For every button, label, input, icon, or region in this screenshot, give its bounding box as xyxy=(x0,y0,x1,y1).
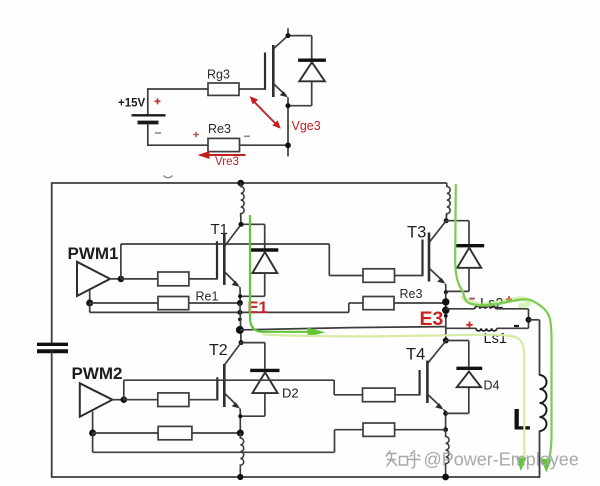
inductor L load xyxy=(540,375,547,431)
wire corner to T4 emitter resistor xyxy=(335,429,364,431)
resistor T2 gate xyxy=(158,393,189,407)
transistor T1 emitter lead xyxy=(225,272,238,285)
wire Ls1 branch right xyxy=(497,327,529,329)
svg-text:T4: T4 xyxy=(406,345,425,363)
resistor T3 gate xyxy=(363,269,395,283)
green path B from T3 down through Ls2 to load xyxy=(455,184,551,465)
wire right rail lower xyxy=(539,431,541,478)
wire Re1 to E1 xyxy=(189,302,240,304)
svg-text:Re1: Re1 xyxy=(196,289,219,303)
node PWM2 output xyxy=(121,396,128,403)
wire T2 gate resistor to gate xyxy=(189,399,218,401)
wire T2 emitter column xyxy=(239,409,241,434)
wire return bus to Re3 branch xyxy=(90,311,349,313)
node PWM2 return xyxy=(89,430,96,437)
diode D1 cathode lead xyxy=(264,224,266,248)
wire to T4 gate resistor xyxy=(334,394,362,396)
wire Re3 main to E3 xyxy=(394,302,446,304)
wire corner to Re3 main xyxy=(349,302,363,304)
wire T2 collector to D2 xyxy=(241,342,265,344)
wire D2 anode to emitter xyxy=(240,415,265,417)
transistor T1 collector lead xyxy=(225,225,241,247)
svg-text:PWM1: PWM1 xyxy=(68,244,119,263)
capacitor C1 xyxy=(37,344,68,351)
node T4 emitter resistor junction xyxy=(443,427,448,432)
inductor parasitic below T4 xyxy=(446,430,449,477)
transistor Q3 collector stub xyxy=(287,28,289,36)
wire Ls2 corner down xyxy=(528,309,530,321)
wire T3 emitter column xyxy=(445,284,447,293)
diode D-top cathode bar xyxy=(298,59,326,62)
wire top gate-drive loop bottom xyxy=(147,144,208,146)
green arrowhead C bottom xyxy=(516,458,526,472)
diode D4 cathode lead xyxy=(468,341,470,367)
inductor parasitic below T2 xyxy=(240,433,243,477)
transistor T4 emitter arrowhead xyxy=(435,403,443,409)
node T4 leg bottom rail xyxy=(442,474,449,481)
diode D3 triangle xyxy=(457,248,481,268)
plus mark red left of Re3 xyxy=(193,132,199,138)
node PWM1 output xyxy=(118,276,125,283)
node Ls junction xyxy=(526,317,532,323)
wire T4 gate resistor to gate xyxy=(395,394,421,396)
wire gate bus corner down xyxy=(328,244,330,276)
wire E1 to E3 load bus xyxy=(240,327,446,330)
transistor T4 gate bar xyxy=(419,370,421,396)
svg-text:D4: D4 xyxy=(484,378,500,392)
svg-text:+15V: +15V xyxy=(118,98,146,110)
node T4 collector xyxy=(443,338,449,344)
wire gate bus PWM2 to T4 branch xyxy=(124,379,334,381)
annotation Vge3 double arrow xyxy=(253,100,278,126)
transistor T4 emitter lead xyxy=(428,395,442,408)
resistor Re1 xyxy=(158,297,189,310)
wire T1 collector to D1 xyxy=(241,223,265,225)
wire collector to diode top xyxy=(287,35,312,37)
transistor T2 collector lead xyxy=(225,343,241,365)
node T4 emitter D4 junction xyxy=(443,411,448,416)
diode D-top cathode lead xyxy=(311,36,313,59)
wire PWM1 return drop xyxy=(89,291,91,304)
wire to T3 gate resistor xyxy=(329,275,363,277)
transistor T2 emitter arrowhead xyxy=(232,402,240,408)
wire PWM2 return to T2 emitter resistor xyxy=(93,432,159,434)
wire top gate-drive loop top xyxy=(148,88,208,90)
wire D3 anode to emitter xyxy=(446,290,469,292)
green arrowhead A xyxy=(308,328,326,337)
wire Q3 emitter stub below xyxy=(287,145,289,156)
svg-text:Vge3: Vge3 xyxy=(292,119,321,133)
wire Ls2 branch left xyxy=(446,308,475,310)
inductor Ls2 xyxy=(475,306,496,309)
wire PWM1 output xyxy=(110,278,122,280)
wire Ls1 branch left xyxy=(446,327,476,329)
plus mark right of Ls2 xyxy=(506,296,512,302)
transistor T3 emitter arrowhead xyxy=(437,278,445,284)
node E3 small xyxy=(444,314,448,318)
transistor T3 body bar xyxy=(428,233,431,282)
transistor T4 body bar xyxy=(426,361,429,404)
wire T4 gate bus corner down xyxy=(333,380,335,395)
svg-text:Re3: Re3 xyxy=(208,122,231,136)
node PWM1 return xyxy=(86,300,93,307)
plus mark red near battery top xyxy=(155,98,161,104)
transistor Q3 gate bar xyxy=(264,53,266,90)
wire D4 anode to emitter xyxy=(446,412,469,414)
wire Ls1 corner up xyxy=(528,320,530,329)
node return bus E1 crossing xyxy=(237,310,242,315)
transistor T3 emitter lead xyxy=(430,269,444,282)
inductor parasitic above T3 xyxy=(446,183,450,217)
wire E1 column xyxy=(240,303,241,343)
wire PWM2 up to gate bus xyxy=(123,380,125,400)
wire DC bus left rail lower xyxy=(51,352,53,478)
svg-text:@Power-Employee: @Power-Employee xyxy=(424,450,579,470)
wire D4 top to T4 collector xyxy=(446,340,469,342)
node T3 collector xyxy=(444,218,449,223)
wire T4 emitter branch corner up xyxy=(334,430,336,453)
diode D2 triangle xyxy=(252,372,277,393)
minus mark right of Ls1 xyxy=(514,325,519,327)
node E1 Re1 junction xyxy=(237,300,243,306)
minus mark grey right of Re3 xyxy=(244,135,250,137)
node T2 collector xyxy=(239,340,244,345)
wire T1 gate resistor to gate xyxy=(189,278,218,280)
green path glow blob near Ls2 xyxy=(462,296,529,305)
diode D4 triangle xyxy=(457,372,481,388)
svg-text:E3: E3 xyxy=(420,308,444,330)
resistor Rg3 xyxy=(208,83,239,95)
svg-text:Rg3: Rg3 xyxy=(207,68,230,82)
wire PWM2 return drop xyxy=(92,412,94,434)
wire Re3 to emitter node xyxy=(240,144,289,146)
wire return bus to T4 emitter branch xyxy=(93,451,335,453)
wire Q3 emitter column xyxy=(287,97,289,145)
wire gate bus PWM1 to T3 branch xyxy=(121,243,329,245)
wire DC bus bottom rail xyxy=(52,476,540,478)
battery V1 +15V xyxy=(132,115,166,122)
node E1 main xyxy=(236,326,244,334)
svg-text:Re3: Re3 xyxy=(400,287,423,301)
green path A vertical and arrow xyxy=(250,215,309,332)
node D3 emitter junction xyxy=(444,290,448,294)
wire Re3 branch corner up xyxy=(348,303,350,312)
node E3 lower blob xyxy=(442,307,449,314)
watermark zhihu glyphs xyxy=(386,451,421,469)
node E1 small xyxy=(238,318,242,322)
green arrowhead B bottom xyxy=(541,459,552,473)
resistor T2 emitter xyxy=(158,426,192,439)
svg-text:T3: T3 xyxy=(407,223,426,241)
diode D1 anode lead xyxy=(264,273,266,296)
buffer PWM1 triangle xyxy=(77,262,110,296)
wire diode anode to emitter xyxy=(288,105,312,107)
buffer PWM2 triangle xyxy=(80,383,113,416)
wire PWM2 output xyxy=(112,399,125,401)
diode D3 cathode lead xyxy=(468,221,470,245)
diode D-top anode lead xyxy=(311,81,313,105)
wire PWM2 return lower drop xyxy=(92,433,94,452)
wire T1 collector column xyxy=(240,214,242,225)
diode D-top triangle xyxy=(299,62,325,81)
transistor T2 gate bar xyxy=(216,377,218,400)
svg-text:T2: T2 xyxy=(209,342,228,359)
transistor T2 body bar xyxy=(223,364,226,407)
wire PWM1 return lower drop xyxy=(89,303,91,312)
transistor T3 collector lead xyxy=(430,221,447,242)
node Q3 emitter-return junction xyxy=(285,142,291,148)
green path pale continuation to right xyxy=(263,335,524,461)
svg-text:Vre3: Vre3 xyxy=(215,156,239,168)
wire PWM1 up to gate bus xyxy=(120,244,122,279)
wire right rail upper xyxy=(539,320,541,376)
transistor T3 gate bar xyxy=(421,240,423,277)
wire D1 anode to emitter xyxy=(240,295,265,297)
wire battery plus lead xyxy=(147,88,149,114)
transistor Q3 collector lead xyxy=(274,36,288,49)
wire Ls node to right rail xyxy=(529,319,540,321)
diode D3 cathode bar xyxy=(456,244,485,247)
wire battery minus lead xyxy=(147,124,149,145)
wire PWM1 return to Re1 xyxy=(90,302,158,304)
wire Rg3 to gate xyxy=(239,88,266,90)
wire T4 emitter resistor to emitter xyxy=(395,429,446,431)
wire T1 emitter column xyxy=(239,287,241,303)
diode D3 anode lead xyxy=(468,268,470,292)
annotation Vre3 arrow xyxy=(205,154,246,156)
inductor parasitic above T1 xyxy=(241,183,244,217)
node T2 emitter xyxy=(237,430,244,437)
wire PWM2 to T2 gate resistor xyxy=(124,399,158,401)
diode D4 cathode bar xyxy=(456,367,482,370)
resistor Re3 main xyxy=(363,297,394,310)
transistor T1 gate bar xyxy=(216,241,218,279)
resistor Re3 top circuit xyxy=(208,138,240,151)
node T1 collector xyxy=(239,222,244,227)
diode D2 cathode bar xyxy=(250,369,279,372)
diode D4 anode lead xyxy=(468,387,470,413)
transistor Q3 emitter lead xyxy=(274,84,286,96)
svg-text:L: L xyxy=(513,404,531,437)
transistor T4 collector lead xyxy=(428,341,446,363)
transistor Q3 body bar xyxy=(272,45,275,97)
minus mark left of Ls2 xyxy=(469,298,475,300)
transistor T2 emitter lead xyxy=(225,394,238,407)
node Q3 collector xyxy=(286,33,291,38)
plus mark left of Ls1 xyxy=(466,322,472,328)
wire T4 emitter column xyxy=(444,410,446,431)
transistor Q3 emitter arrowhead xyxy=(280,91,288,97)
node top rail T1 leg xyxy=(237,180,244,187)
svg-text:Ls1: Ls1 xyxy=(484,331,507,347)
transistor T1 emitter arrowhead xyxy=(232,281,240,287)
svg-text:D2: D2 xyxy=(282,385,299,400)
transistor T1 body bar xyxy=(223,233,226,285)
wire T3 gate resistor to gate xyxy=(395,275,424,277)
node D1 emitter junction xyxy=(238,294,242,298)
wire PWM1 to T1 gate resistor xyxy=(121,278,158,280)
wire T2 emitter resistor to emitter xyxy=(192,432,240,434)
resistor T4 emitter xyxy=(363,423,395,436)
grid artifact tick above top rail xyxy=(164,176,173,178)
wire T3 collector to D3 xyxy=(446,220,469,222)
node Q3 emitter junction xyxy=(286,103,291,108)
node D2 emitter junction xyxy=(238,414,242,418)
diode D1 cathode bar xyxy=(250,248,278,251)
resistor T1 gate xyxy=(158,272,189,286)
node T2 leg bottom rail xyxy=(237,474,243,480)
svg-text:PWM2: PWM2 xyxy=(72,364,123,383)
wire DC bus left rail upper xyxy=(51,182,53,344)
resistor T4 gate xyxy=(363,388,396,402)
diode D1 triangle xyxy=(252,252,277,273)
wire T3 collector column xyxy=(445,214,447,221)
minus mark grey near battery bottom xyxy=(155,132,161,134)
diode D2 cathode lead xyxy=(264,343,266,369)
wire DC bus top rail xyxy=(52,182,447,184)
wire Ls2 branch right xyxy=(496,308,529,310)
wire E3 column xyxy=(445,292,447,341)
inductor Ls1 xyxy=(476,328,497,331)
diode D2 anode lead xyxy=(264,393,266,416)
node E3 upper blob xyxy=(442,298,449,305)
